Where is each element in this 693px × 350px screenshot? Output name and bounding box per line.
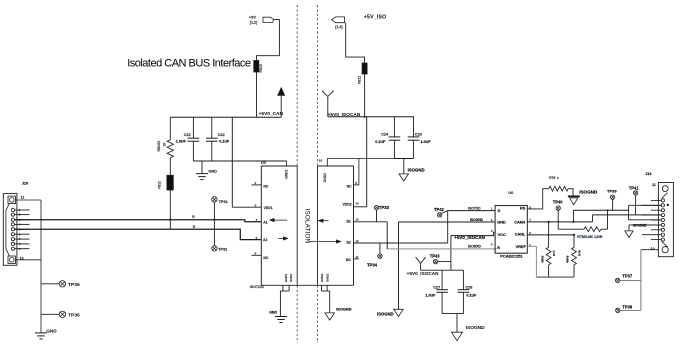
svg-text:16: 16 — [319, 159, 323, 163]
svg-text:TP36: TP36 — [68, 313, 80, 319]
svg-text:PCA82C251: PCA82C251 — [500, 253, 523, 258]
svg-text:10: 10 — [651, 247, 655, 251]
svg-text:TP41: TP41 — [629, 185, 640, 190]
svg-text:RBUS1: RBUS1 — [157, 140, 161, 151]
svg-text:C24: C24 — [381, 133, 389, 137]
svg-text:ISOGND: ISOGND — [336, 306, 352, 311]
svg-text:11: 11 — [355, 255, 358, 259]
svg-text:+5V0_ISOCAN: +5V0_ISOCAN — [328, 112, 361, 118]
svg-text:NC: NC — [346, 258, 351, 262]
svg-text:TP37: TP37 — [622, 274, 633, 279]
svg-text:ISOTXD: ISOTXD — [468, 206, 481, 210]
svg-text:GND2: GND2 — [326, 273, 330, 282]
svg-text:R: R — [497, 246, 500, 250]
svg-text:VDD2: VDD2 — [343, 203, 352, 207]
svg-text:1.0UF: 1.0UF — [421, 140, 432, 144]
svg-text:GND2: GND2 — [320, 273, 324, 282]
svg-text:+5V0_ISOCAN: +5V0_ISOCAN — [454, 235, 485, 240]
svg-text:GND1: GND1 — [285, 169, 289, 178]
svg-text:C28: C28 — [465, 285, 472, 289]
svg-text:VDD1: VDD1 — [264, 206, 273, 210]
svg-text:GND: GND — [208, 169, 217, 173]
svg-text:ISOGND: ISOGND — [579, 189, 598, 194]
svg-text:12: 12 — [355, 239, 359, 243]
svg-text:ISOGND: ISOGND — [377, 311, 394, 316]
svg-text:+5V: +5V — [249, 15, 257, 20]
svg-text:GND2: GND2 — [323, 173, 327, 182]
svg-text:U6: U6 — [508, 190, 514, 195]
svg-text:TP31: TP31 — [219, 200, 228, 204]
svg-text:[1,2]: [1,2] — [250, 21, 257, 25]
svg-text:TP40: TP40 — [553, 199, 564, 204]
svg-text:GND: GND — [497, 221, 506, 225]
svg-text:VREF: VREF — [516, 245, 527, 249]
svg-text:ISOLATION: ISOLATION — [303, 209, 310, 244]
svg-text:C23: C23 — [415, 133, 422, 137]
svg-text:Isolated CAN BUS Interface: Isolated CAN BUS Interface — [127, 58, 251, 70]
svg-text:TP32: TP32 — [218, 248, 227, 252]
svg-text:NC: NC — [263, 256, 268, 260]
svg-text:NC: NC — [347, 185, 352, 189]
svg-text:VCC: VCC — [498, 233, 506, 237]
svg-text:R77: R77 — [552, 250, 556, 256]
svg-text:U5: U5 — [261, 161, 266, 165]
svg-text:TP35: TP35 — [68, 282, 80, 288]
svg-text:C27: C27 — [433, 285, 440, 289]
svg-text:1.0UF: 1.0UF — [425, 293, 436, 297]
svg-text:TP42: TP42 — [434, 207, 445, 212]
svg-text:0.1UF: 0.1UF — [466, 293, 477, 297]
svg-text:1K: 1K — [162, 142, 166, 147]
svg-text:RS: RS — [520, 206, 526, 210]
svg-text:13: 13 — [355, 218, 359, 222]
svg-text:B1: B1 — [346, 220, 350, 224]
svg-text:A2: A2 — [263, 238, 267, 242]
svg-text:J14: J14 — [645, 172, 652, 176]
svg-text:RTM/LNK 120R: RTM/LNK 120R — [577, 235, 603, 239]
svg-text:GND1: GND1 — [289, 273, 293, 282]
svg-text:CANL: CANL — [515, 232, 526, 236]
svg-text:[1,4]: [1,4] — [335, 25, 342, 29]
svg-text:GND: GND — [46, 328, 57, 333]
svg-text:ISORXD: ISORXD — [468, 244, 482, 248]
svg-text:FB12: FB12 — [157, 181, 161, 189]
svg-text:49R9: 49R9 — [540, 255, 544, 263]
svg-text:R76: R76 — [549, 176, 555, 180]
svg-text:B2: B2 — [346, 240, 350, 244]
svg-text:1.0UF: 1.0UF — [176, 139, 187, 143]
svg-text:TP38: TP38 — [622, 305, 633, 310]
svg-text:J10: J10 — [22, 181, 28, 185]
svg-text:+5V_ISO: +5V_ISO — [364, 14, 387, 20]
svg-text:11: 11 — [652, 183, 656, 187]
svg-text:TP43: TP43 — [430, 254, 441, 259]
svg-text:FB10: FB10 — [259, 64, 263, 72]
svg-text:14: 14 — [355, 202, 359, 206]
svg-text:ISOGND: ISOGND — [466, 325, 485, 331]
svg-text:D: D — [498, 209, 501, 213]
svg-text:ISOGND: ISOGND — [408, 167, 425, 172]
svg-text:0.1UF: 0.1UF — [375, 140, 386, 144]
svg-text:ISO7221: ISO7221 — [250, 285, 264, 289]
svg-text:TP39: TP39 — [607, 189, 617, 194]
svg-text:A1: A1 — [263, 220, 267, 224]
svg-text:C22: C22 — [218, 133, 225, 137]
svg-text:49R9: 49R9 — [566, 255, 570, 263]
svg-text:NC: NC — [263, 185, 268, 189]
svg-text:0.1UF: 0.1UF — [219, 139, 230, 143]
svg-text:+5V0_CAN: +5V0_CAN — [259, 111, 284, 117]
svg-text:GND1: GND1 — [284, 273, 288, 282]
svg-text:GND: GND — [269, 311, 277, 315]
svg-text:CANH: CANH — [514, 220, 525, 224]
svg-text:ISOGND: ISOGND — [470, 218, 484, 222]
svg-text:TP33: TP33 — [379, 205, 390, 210]
svg-text:TP34: TP34 — [367, 262, 378, 267]
svg-text:+5V0_ISOCAN: +5V0_ISOCAN — [407, 271, 440, 276]
svg-text:C21: C21 — [184, 133, 191, 137]
svg-text:FB11: FB11 — [357, 76, 361, 84]
svg-text:11: 11 — [21, 196, 25, 200]
svg-text:R78: R78 — [578, 250, 582, 256]
